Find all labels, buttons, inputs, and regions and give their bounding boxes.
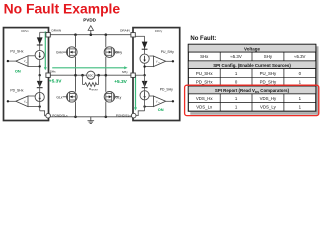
wire A1 to I1 top xyxy=(28,55,35,57)
current source I3 PU_SHy xyxy=(140,54,149,63)
svg-text:VDS_Lx: VDS_Lx xyxy=(196,105,213,110)
svg-text:PD_SHx: PD_SHx xyxy=(10,88,23,92)
wire U1 column continues xyxy=(39,75,41,111)
svg-text:GHx: GHx xyxy=(56,51,63,55)
node dot SHy internal xyxy=(143,74,145,76)
pin pad SHx U1 xyxy=(46,73,50,77)
svg-text:BDC: BDC xyxy=(88,73,94,77)
red highlight box SPI Report section xyxy=(185,85,319,115)
svg-text:SHx: SHx xyxy=(200,54,209,59)
pin pad SHy U2 xyxy=(131,73,135,77)
node dot motor right xyxy=(97,74,100,77)
svg-text:+5.3V: +5.3V xyxy=(49,79,62,85)
svg-text:No Fault Example: No Fault Example xyxy=(4,0,121,16)
svg-text:≈5.3V: ≈5.3V xyxy=(294,54,305,59)
transistor Q2 high-side GHy xyxy=(104,47,118,58)
table row VDS_L xyxy=(196,105,301,110)
green highlight path U1 pull-up xyxy=(44,31,47,70)
node A1 input terminal xyxy=(7,60,9,62)
svg-text:PU_SHx: PU_SHx xyxy=(10,50,23,54)
transistor Q4 low-side GLy xyxy=(104,92,118,103)
wire U1 drain internal xyxy=(40,31,47,33)
current source I1 PU_SHx xyxy=(35,50,44,59)
wire U1 to PGND pad xyxy=(40,111,46,116)
svg-text:VDS_Hx: VDS_Hx xyxy=(196,96,213,101)
svg-text:SHUNT: SHUNT xyxy=(91,90,99,92)
wire bottom rail PGND xyxy=(50,116,131,118)
motor M1 BDC xyxy=(87,71,95,79)
green highlight current path SHx to SHy xyxy=(52,66,127,69)
wire A2 to column bottom xyxy=(28,106,40,108)
svg-text:SPI Config. (Enable Current So: SPI Config. (Enable Current Sources) xyxy=(213,63,291,68)
table row PU config xyxy=(196,71,302,76)
svg-text:PU_SHy: PU_SHy xyxy=(161,50,174,54)
svg-text:cc: cc xyxy=(158,62,160,64)
diode D1 xyxy=(37,37,43,45)
current source I2 PD_SHx xyxy=(35,92,44,101)
node dot top rail right bridge xyxy=(105,33,108,36)
node dot top rail left bridge xyxy=(74,33,77,36)
wire A2 to I2 top xyxy=(28,95,35,97)
node dot bottom rail right bridge xyxy=(105,116,108,119)
wire A1 input xyxy=(8,60,16,62)
pin pad PGND/SLx U1 xyxy=(46,113,51,118)
pin pad DRAIN U2 xyxy=(131,33,135,37)
svg-text:PD_SHx: PD_SHx xyxy=(196,80,213,85)
node dot SHy at right bridge xyxy=(105,74,108,77)
diode D3 xyxy=(142,42,148,50)
ground xyxy=(88,117,95,124)
diode D2 xyxy=(37,81,43,88)
wire U1 internal column xyxy=(39,32,41,75)
resistor RSHUNT parallel loop xyxy=(83,75,99,92)
wire A3 to column bottom xyxy=(145,66,154,68)
wire U2 internal column xyxy=(144,36,146,75)
node dot column below I3 xyxy=(143,65,145,67)
svg-text:≈5.3V: ≈5.3V xyxy=(230,54,241,59)
node dot bottom rail left bridge xyxy=(74,116,77,119)
node dot column below I4 xyxy=(143,105,145,107)
node A4 terminal xyxy=(172,100,174,102)
svg-text:PU_SHx: PU_SHx xyxy=(196,71,213,76)
table body xyxy=(188,44,315,111)
svg-text:+5.3V: +5.3V xyxy=(114,79,127,85)
svg-text:cc: cc xyxy=(26,102,28,104)
wire right bridge vertical xyxy=(105,35,107,117)
wire A4 to I4 top xyxy=(149,95,153,97)
wire A3 to I3 top xyxy=(149,55,153,57)
svg-text:Voltage: Voltage xyxy=(244,46,260,51)
node dot top rail PVDD xyxy=(90,33,93,36)
wire top rail DRAIN/PVDD xyxy=(50,34,131,36)
svg-text:DRAIN: DRAIN xyxy=(52,29,62,33)
op-amp buffer A3 PU_SHy xyxy=(153,56,165,67)
node A3 terminal xyxy=(172,60,174,62)
table row VDS_H xyxy=(196,96,302,101)
node dot column below I2 xyxy=(39,105,41,107)
table header Voltage xyxy=(188,44,315,52)
op-amp buffer A2 PD_SHx xyxy=(16,96,28,107)
svg-text:PVDD: PVDD xyxy=(83,18,96,23)
op-amp buffer A1 PU_SHx xyxy=(16,56,28,67)
svg-text:ON: ON xyxy=(15,68,21,73)
node dot column below I1 xyxy=(39,65,41,67)
power symbol PVDD xyxy=(83,18,96,35)
wire U2 to PGND pad xyxy=(136,111,144,116)
table shadow xyxy=(190,46,318,114)
svg-text:SHx: SHx xyxy=(50,70,56,74)
node A2 input terminal xyxy=(7,100,9,102)
node dot SHx internal xyxy=(39,74,41,76)
svg-text:VDS_Hy: VDS_Hy xyxy=(260,96,277,101)
table header SPI Report xyxy=(188,86,315,94)
svg-text:DRAIN: DRAIN xyxy=(120,29,130,33)
wire A1 to column bottom xyxy=(28,65,40,67)
wire U2 drain internal xyxy=(135,35,145,37)
svg-text:DRVx: DRVx xyxy=(21,29,29,33)
svg-text:cc: cc xyxy=(158,102,160,104)
svg-text:VDS_Ly: VDS_Ly xyxy=(260,105,277,110)
svg-text:SHy: SHy xyxy=(264,54,273,59)
table row PD config xyxy=(196,80,302,85)
svg-text:PD_SHy: PD_SHy xyxy=(260,80,277,85)
gate driver block U2 right xyxy=(133,28,180,121)
wire left bridge vertical xyxy=(75,35,77,117)
svg-text:GHy: GHy xyxy=(115,51,122,55)
wire A2 input xyxy=(8,100,16,102)
current source I4 PD_SHy xyxy=(140,91,149,100)
svg-text:No Fault:: No Fault: xyxy=(190,36,216,42)
table grid lines xyxy=(188,52,315,111)
diode D4 xyxy=(142,81,148,88)
wire U2 SHy internal xyxy=(135,74,144,76)
gate driver block U1 left xyxy=(4,28,49,121)
transistor Q3 low-side GLx xyxy=(63,92,77,103)
svg-text:PD_SHy: PD_SHy xyxy=(160,88,173,92)
green highlight path U2 pull-down xyxy=(134,76,137,111)
svg-text:DRVy: DRVy xyxy=(155,29,163,33)
table row voltage values xyxy=(200,54,305,59)
table header SPI Config xyxy=(188,61,315,69)
svg-text:PU_SHy: PU_SHy xyxy=(260,71,277,76)
wire A3 output to terminal xyxy=(166,60,173,62)
svg-text:PGND/SLx: PGND/SLx xyxy=(52,114,68,118)
svg-text:ON: ON xyxy=(158,107,164,112)
wire A4 output to terminal xyxy=(166,100,173,102)
wire phase net SHx-SHy xyxy=(50,74,131,76)
svg-text:GLx: GLx xyxy=(56,95,62,99)
wire U2 column continues xyxy=(144,75,146,111)
transistor Q1 high-side GHx xyxy=(63,47,77,58)
node dot SHx at left bridge xyxy=(74,74,77,77)
op-amp buffer A4 PD_SHy xyxy=(153,96,165,107)
pin pad PGND/SLy U2 xyxy=(131,113,136,118)
svg-text:cc: cc xyxy=(26,62,28,64)
wire A4 to column bottom xyxy=(145,106,154,108)
pin pad DRAIN U1 xyxy=(46,33,50,37)
svg-text:SHy: SHy xyxy=(122,70,128,74)
svg-text:GLy: GLy xyxy=(115,95,121,99)
svg-text:PGND/SLy: PGND/SLy xyxy=(116,114,131,118)
node dot motor left xyxy=(81,74,84,77)
